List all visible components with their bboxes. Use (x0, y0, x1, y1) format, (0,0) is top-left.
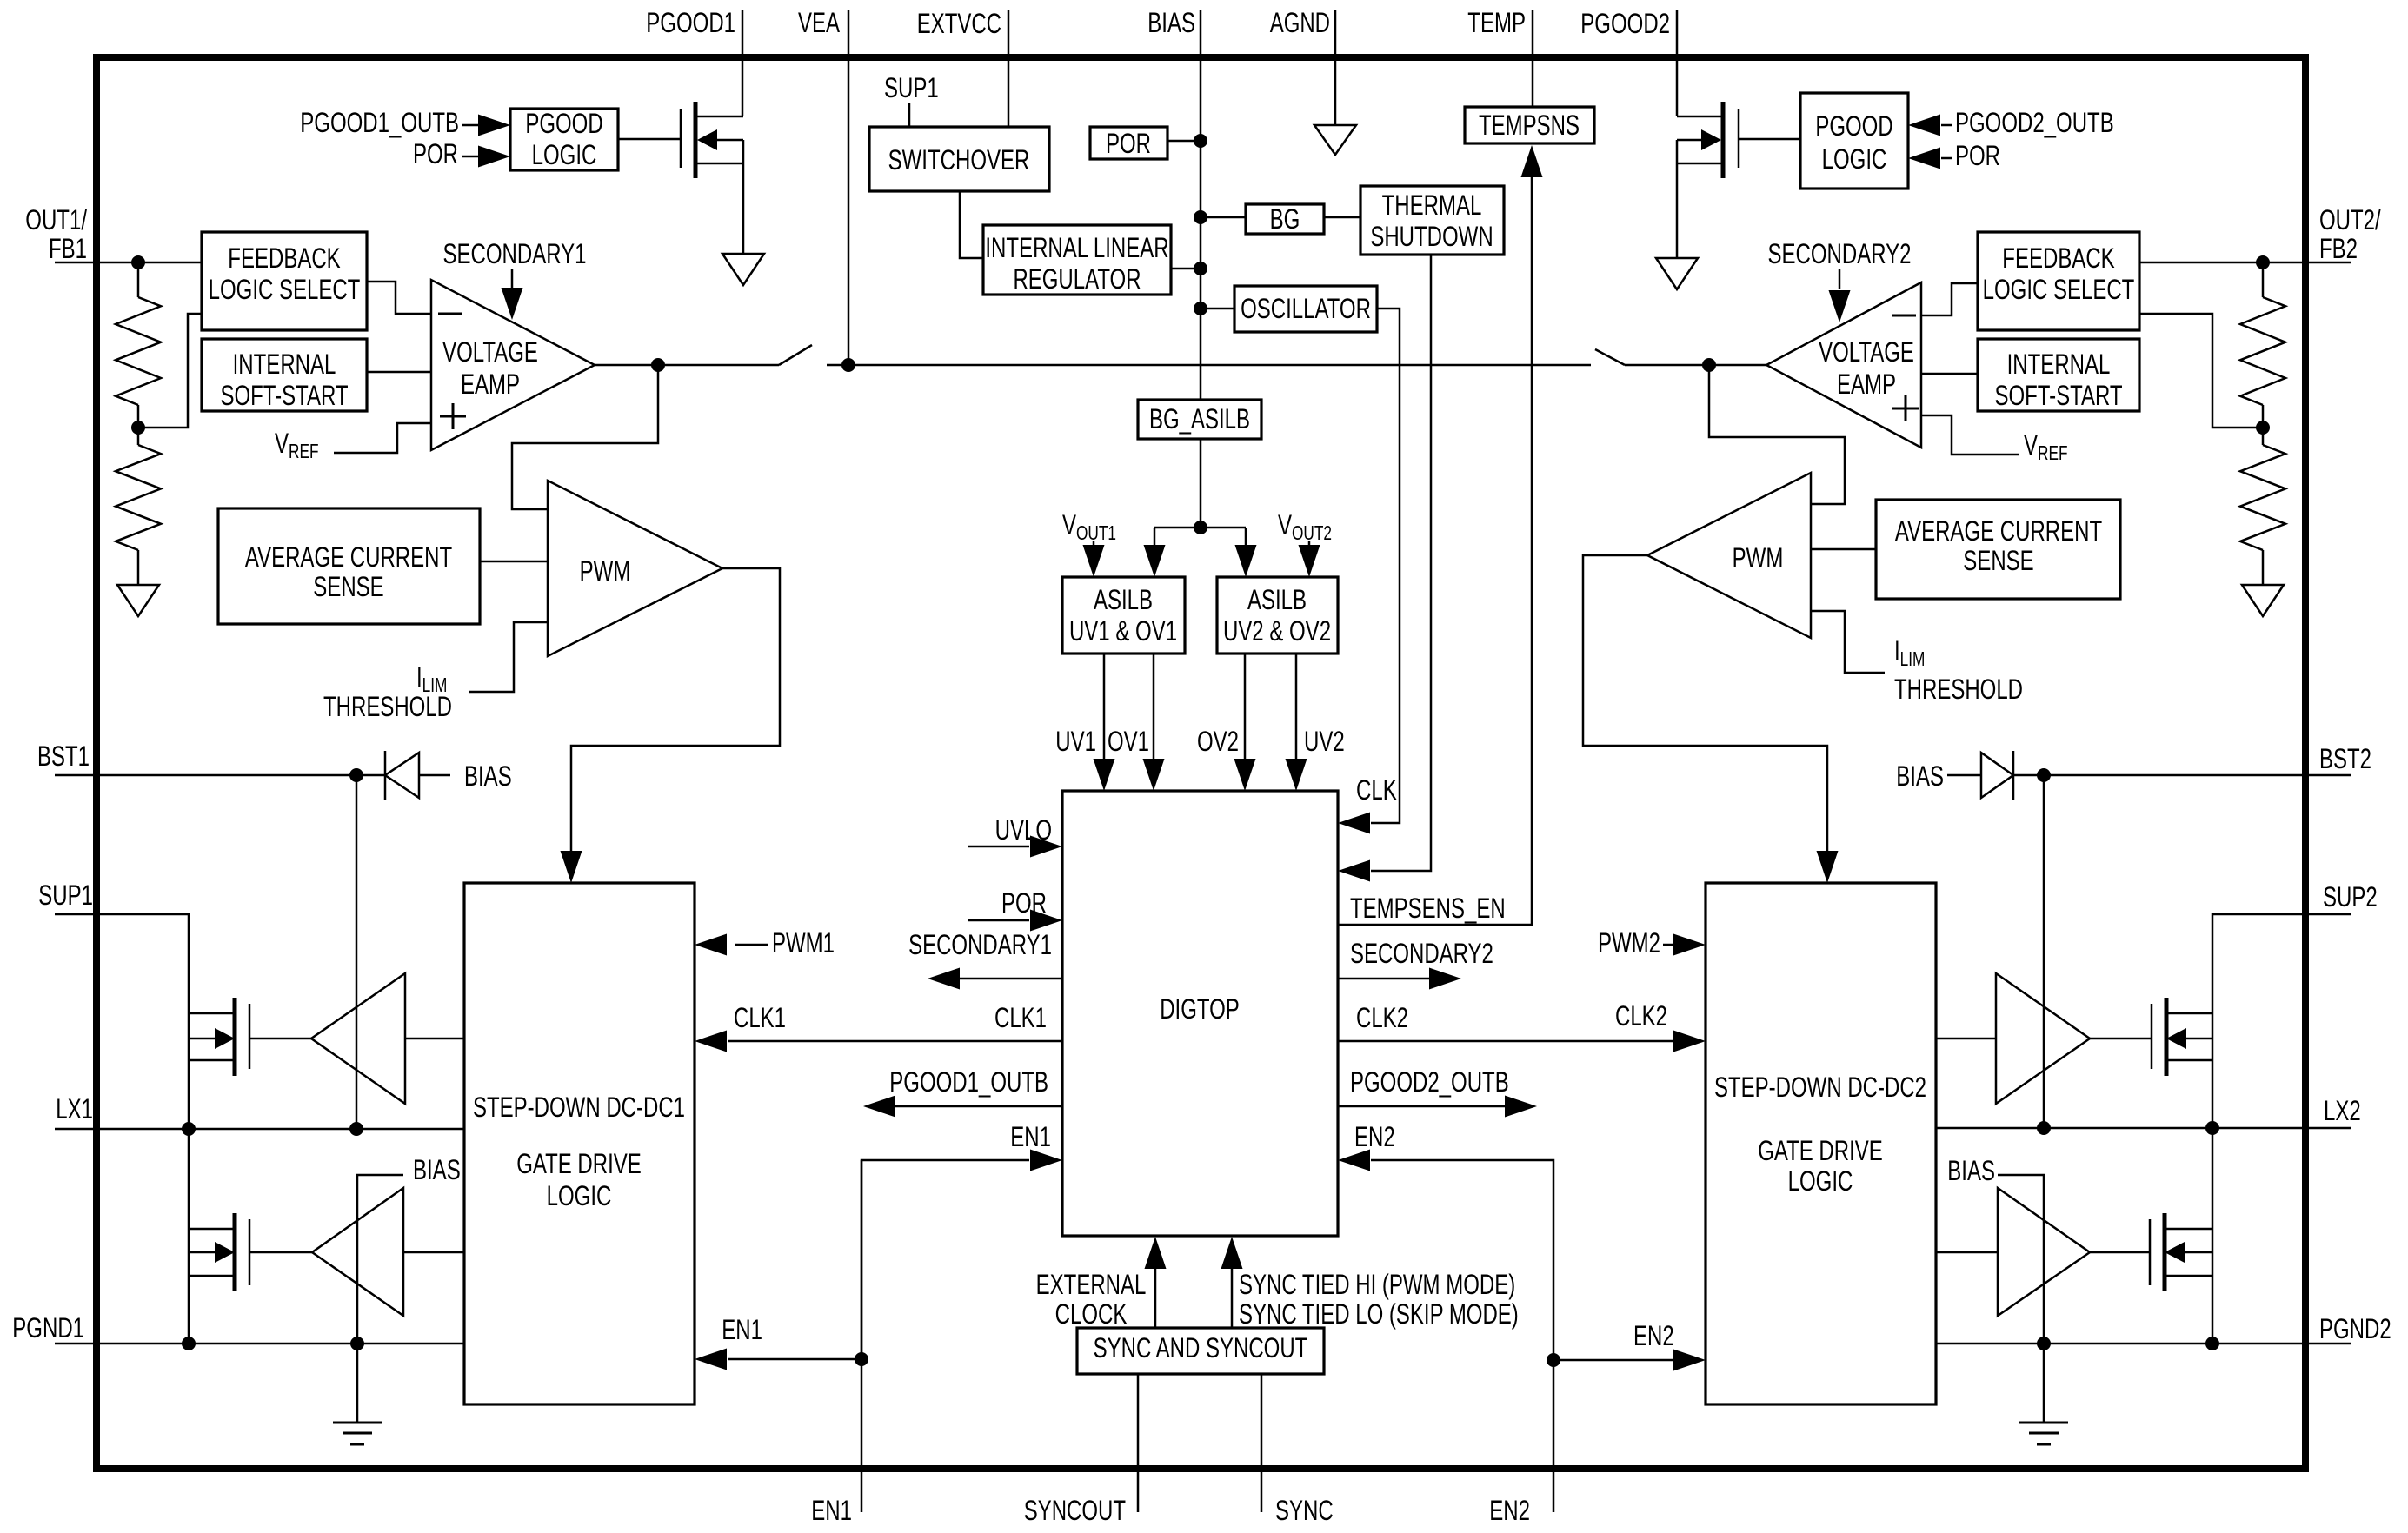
pin SYNC (1261, 1374, 1263, 1512)
wire gate PGOOD LOGIC to Q2 (1739, 138, 1800, 141)
svg-text:UV2: UV2 (1304, 726, 1345, 757)
op-amp EAMP2 VOLTAGE EAMP (1766, 282, 1921, 448)
svg-text:AVERAGE CURRENT: AVERAGE CURRENT (1895, 515, 2102, 547)
node bus right junction (1702, 358, 1716, 372)
svg-text:VREF: VREF (275, 428, 319, 462)
svg-text:THERMAL: THERMAL (1382, 189, 1482, 221)
box OSCILLATOR (1234, 286, 1377, 332)
svg-text:FEEDBACK: FEEDBACK (228, 242, 340, 274)
svg-text:UV2 & OV2: UV2 & OV2 (1223, 615, 1331, 647)
svg-text:VOUT1: VOUT1 (1062, 509, 1116, 544)
svg-text:INTERNAL: INTERNAL (2007, 348, 2111, 380)
box SYNC AND SYNCOUT (1077, 1328, 1324, 1374)
box FEEDBACK LOGIC SELECT (right) (1978, 232, 2139, 330)
box AVERAGE CURRENT SENSE (right) (1876, 500, 2120, 599)
box PGOOD LOGIC (left) (510, 109, 618, 170)
svg-text:STEP-DOWN DC-DC2: STEP-DOWN DC-DC2 (1714, 1072, 1926, 1103)
svg-text:SUP1: SUP1 (38, 879, 93, 911)
wire thermal shutdown to DIGTOP (1371, 255, 1431, 871)
svg-text:SENSE: SENSE (313, 571, 383, 602)
wire bus to PWM1 input (512, 365, 658, 509)
wire POR to BIAS rail (1167, 140, 1201, 143)
wire PWM1 output to gate driver (571, 568, 780, 851)
box PGOOD LOGIC (right) (1800, 93, 1908, 189)
wire ILIM to PWM2 (1811, 611, 1885, 673)
svg-text:INTERNAL LINEAR: INTERNAL LINEAR (985, 232, 1168, 263)
svg-text:EAMP: EAMP (461, 368, 520, 400)
amplifier PWM1 (548, 481, 722, 656)
svg-text:PGOOD2: PGOOD2 (1580, 8, 1670, 39)
svg-text:EXTERNAL: EXTERNAL (1036, 1269, 1147, 1300)
box POR (1090, 127, 1167, 159)
ground below divider (left) (117, 585, 159, 616)
node divider tap (left) (131, 421, 145, 435)
switch on bus (right) (1595, 349, 1625, 365)
node PGND1 junctions (182, 1337, 196, 1350)
wire TEMPSENS_EN from DIGTOP to TEMPSNS (1338, 177, 1532, 925)
pin PGND2 (1936, 1343, 2351, 1345)
pin LX1 (55, 1128, 464, 1131)
svg-text:PWM: PWM (1733, 542, 1784, 574)
transistor Q6 low-side right (2090, 1251, 2150, 1254)
node PGND2 junctions (2037, 1337, 2051, 1350)
box TEMPSNS (1465, 107, 1594, 143)
svg-text:EXTVCC: EXTVCC (917, 8, 1001, 39)
ground below Q1 (722, 254, 764, 285)
svg-text:CLK1: CLK1 (734, 1002, 786, 1033)
box AVERAGE CURRENT SENSE (left) (218, 508, 480, 624)
svg-text:LX2: LX2 (2324, 1095, 2361, 1126)
wire tap to feedback box right (2139, 314, 2263, 428)
svg-text:LX1: LX1 (56, 1093, 93, 1125)
ground chassis right (2019, 1422, 2068, 1424)
svg-text:OV2: OV2 (1197, 726, 1239, 757)
signal UV2 to DIGTOP (1295, 654, 1298, 760)
pin BST1 (55, 774, 356, 777)
svg-text:BIAS: BIAS (1896, 760, 1944, 792)
svg-text:POR: POR (1955, 140, 2000, 171)
wire BIAS to BG (1201, 216, 1246, 219)
svg-text:LOGIC: LOGIC (532, 139, 597, 170)
amplifier PWM2 (1647, 473, 1811, 638)
svg-text:CLOCK: CLOCK (1055, 1298, 1128, 1330)
pin TEMP (1532, 10, 1534, 107)
node BIAS-regulator (1194, 262, 1207, 275)
diode bootstrap D1 (349, 768, 363, 782)
node EN2 junction (1547, 1353, 1560, 1367)
svg-text:EN1: EN1 (722, 1314, 762, 1345)
svg-text:CLK2: CLK2 (1615, 1000, 1667, 1032)
box INTERNAL LINEAR REGULATOR (983, 225, 1171, 295)
box DIGTOP (1062, 791, 1338, 1236)
box INTERNAL SOFT-START (left) (202, 339, 367, 411)
svg-text:EN2: EN2 (1489, 1495, 1530, 1526)
wire BST1 to LX1 (356, 775, 358, 1129)
signal UV1 to DIGTOP (1103, 654, 1106, 760)
pin EN2 (1553, 1360, 1555, 1512)
box BG_ASILB (1138, 400, 1261, 439)
svg-text:POR: POR (1106, 128, 1151, 159)
svg-text:BG_ASILB: BG_ASILB (1149, 403, 1250, 435)
transistor Q1 PGOOD1 open-drain (680, 109, 682, 168)
svg-text:SYNC TIED HI (PWM MODE): SYNC TIED HI (PWM MODE) (1239, 1269, 1515, 1300)
svg-text:VOLTAGE: VOLTAGE (1819, 336, 1914, 368)
svg-text:PWM: PWM (580, 555, 631, 587)
node divider tap (right) (2256, 421, 2270, 435)
svg-text:REGULATOR: REGULATOR (1013, 263, 1141, 295)
svg-text:CLK1: CLK1 (994, 1002, 1047, 1033)
box BG (1246, 204, 1324, 234)
pin EN1 (861, 1160, 863, 1512)
node LX2 junctions (2037, 1121, 2051, 1135)
wire BG to thermal shutdown (1324, 216, 1360, 219)
wire VREF to EAMP2 plus (1921, 415, 2019, 455)
svg-text:GATE DRIVE: GATE DRIVE (1758, 1135, 1883, 1166)
svg-text:SUP1: SUP1 (884, 72, 939, 103)
svg-text:UV1 & OV1: UV1 & OV1 (1069, 615, 1177, 647)
node LX1 junctions (182, 1122, 196, 1136)
pin EXTVCC (1008, 10, 1010, 127)
resistor divider upper (right) (2262, 262, 2265, 297)
svg-text:VEA: VEA (798, 7, 840, 38)
svg-text:OSCILLATOR: OSCILLATOR (1241, 293, 1371, 324)
svg-text:FB1: FB1 (49, 233, 87, 264)
wire BIAS to oscillator (1201, 308, 1234, 310)
svg-text:PGOOD1: PGOOD1 (646, 7, 735, 38)
svg-text:LOGIC: LOGIC (547, 1180, 612, 1211)
svg-text:PGOOD1_OUTB: PGOOD1_OUTB (300, 107, 459, 138)
svg-text:OUT2/: OUT2/ (2319, 204, 2381, 236)
svg-text:ILIM: ILIM (1894, 635, 1925, 670)
node FB1 junction (131, 255, 145, 269)
svg-text:PGND1: PGND1 (12, 1312, 84, 1344)
ground below divider (right) (2242, 585, 2284, 616)
transistor Q3 high-side left (249, 1038, 311, 1040)
wire bus to PWM2 input (1709, 365, 1845, 504)
pin SYNCOUT (1137, 1374, 1140, 1512)
svg-text:ASILB: ASILB (1247, 584, 1307, 615)
pin SUP1 (55, 914, 189, 1344)
wire PWM2 output to gate driver (1583, 555, 1827, 851)
svg-text:OV1: OV1 (1108, 726, 1149, 757)
svg-text:SECONDARY1: SECONDARY1 (908, 929, 1052, 960)
pin LX2 (1936, 1127, 2351, 1130)
svg-text:PGOOD1_OUTB: PGOOD1_OUTB (889, 1066, 1048, 1098)
transistor Q4 low-side left (249, 1251, 312, 1254)
svg-text:PGND2: PGND2 (2319, 1313, 2391, 1344)
pin VEA (848, 10, 850, 365)
box THERMAL SHUTDOWN (1360, 186, 1504, 255)
box INTERNAL SOFT-START (right) (1978, 339, 2139, 411)
transistor Q5 high-side right (2090, 1038, 2152, 1040)
svg-text:TEMPSENS_EN: TEMPSENS_EN (1350, 893, 1506, 924)
svg-text:BIAS: BIAS (1947, 1155, 1995, 1186)
wire oscillator CLK to DIGTOP (1371, 309, 1400, 823)
box STEP-DOWN DC-DC2 GATE DRIVE LOGIC (1706, 883, 1936, 1404)
box SWITCHOVER (869, 127, 1049, 191)
svg-text:CLK2: CLK2 (1356, 1002, 1408, 1033)
svg-text:TEMP: TEMP (1467, 7, 1526, 38)
node BIAS-POR (1194, 134, 1207, 148)
op-amp EAMP1 VOLTAGE EAMP (431, 280, 595, 450)
node VEA junction (841, 358, 855, 372)
pin BIAS (1200, 10, 1202, 400)
svg-text:PGOOD2_OUTB: PGOOD2_OUTB (1955, 107, 2114, 138)
svg-text:CLK: CLK (1356, 774, 1397, 806)
svg-text:FB2: FB2 (2319, 233, 2358, 264)
resistor divider upper (left) (137, 262, 140, 297)
svg-text:SUP2: SUP2 (2323, 881, 2378, 912)
svg-text:EAMP: EAMP (1837, 368, 1896, 400)
wire BG_ASILB to split node (1200, 439, 1202, 528)
svg-text:EN1: EN1 (1010, 1121, 1051, 1152)
svg-text:ASILB: ASILB (1094, 584, 1153, 615)
wire split to ASILB blocks (1154, 527, 1246, 529)
svg-text:SYNC TIED LO (SKIP MODE): SYNC TIED LO (SKIP MODE) (1239, 1298, 1519, 1330)
svg-text:UV1: UV1 (1055, 726, 1096, 757)
svg-text:PWM2: PWM2 (1598, 927, 1660, 959)
pin PGOOD1 (742, 10, 744, 116)
svg-text:BST2: BST2 (2319, 743, 2371, 774)
pin SUP2 (2212, 914, 2351, 1344)
svg-text:VOLTAGE: VOLTAGE (442, 336, 538, 368)
ground below Q2 (1656, 258, 1698, 289)
wire ILIM to PWM1 (469, 622, 548, 692)
pin PGOOD2 (1676, 10, 1679, 116)
svg-text:FEEDBACK: FEEDBACK (2002, 242, 2114, 274)
switch on bus (left) (779, 345, 812, 365)
svg-text:BIAS: BIAS (1147, 7, 1195, 38)
svg-text:VREF: VREF (2024, 429, 2068, 464)
node FB2 junction (2256, 255, 2270, 269)
svg-text:SWITCHOVER: SWITCHOVER (888, 144, 1030, 176)
svg-text:AVERAGE CURRENT: AVERAGE CURRENT (245, 541, 452, 573)
driver buffer high-side (left) (311, 973, 405, 1104)
signal OV2 to DIGTOP (1244, 654, 1247, 760)
svg-text:SHUTDOWN: SHUTDOWN (1370, 221, 1493, 252)
svg-text:EN2: EN2 (1633, 1320, 1674, 1351)
driver buffer low-side (right) (1998, 1188, 2090, 1316)
wire SWITCHOVER to regulator (960, 191, 983, 258)
svg-text:OUT1/: OUT1/ (25, 204, 87, 236)
node BIAS-OSC (1194, 302, 1207, 315)
svg-text:TEMPSNS: TEMPSNS (1479, 109, 1580, 141)
svg-text:BIAS: BIAS (464, 760, 512, 792)
signal OV1 to DIGTOP (1153, 654, 1155, 760)
svg-text:LOGIC SELECT: LOGIC SELECT (1983, 274, 2135, 305)
transistor Q2 PGOOD2 open-drain (1738, 109, 1740, 168)
svg-text:BG: BG (1270, 203, 1300, 235)
svg-text:AGND: AGND (1270, 7, 1330, 38)
svg-text:GATE DRIVE: GATE DRIVE (516, 1148, 642, 1179)
svg-text:EN1: EN1 (811, 1495, 852, 1526)
wire regulator to BIAS rail (1171, 268, 1201, 270)
svg-text:THRESHOLD: THRESHOLD (323, 691, 452, 722)
svg-text:PGOOD2_OUTB: PGOOD2_OUTB (1350, 1066, 1509, 1098)
svg-text:SYNC: SYNC (1275, 1495, 1334, 1526)
ground AGND triangle (1314, 125, 1356, 155)
wire ISS2 to EAMP2 (1921, 373, 1978, 375)
svg-text:SECONDARY2: SECONDARY2 (1768, 238, 1912, 269)
pin OUT1/FB1 (55, 262, 202, 264)
node EAMP1 output (651, 358, 665, 372)
svg-text:EN2: EN2 (1354, 1121, 1395, 1152)
svg-text:SOFT-START: SOFT-START (220, 380, 348, 411)
svg-text:SENSE: SENSE (1963, 545, 2033, 576)
pin OUT2/FB2 (2139, 262, 2351, 264)
wire ISS to EAMP (367, 371, 431, 374)
wire gate PGOOD LOGIC to Q1 (618, 138, 681, 141)
wire VREF to EAMP plus (334, 423, 431, 453)
driver buffer high-side (right) (1996, 973, 2090, 1104)
wire BST2 to LX2 (2043, 775, 2045, 1128)
svg-text:SECONDARY2: SECONDARY2 (1350, 938, 1493, 969)
svg-text:THRESHOLD: THRESHOLD (1894, 674, 2023, 705)
svg-text:SYNCOUT: SYNCOUT (1024, 1495, 1126, 1526)
svg-text:PWM1: PWM1 (772, 927, 835, 959)
wire PGND1 to chassis ground (356, 1344, 359, 1423)
wire ACS1 to PWM1 (480, 561, 548, 563)
wire PGND2 to chassis ground (2043, 1344, 2045, 1423)
svg-text:DIGTOP: DIGTOP (1160, 993, 1240, 1025)
svg-text:PGOOD: PGOOD (525, 108, 602, 139)
wire ACS2 to PWM2 (1811, 548, 1876, 551)
box STEP-DOWN DC-DC1 GATE DRIVE LOGIC (464, 883, 695, 1404)
ground chassis left (333, 1422, 382, 1424)
svg-text:INTERNAL: INTERNAL (233, 348, 336, 380)
pin AGND (1334, 10, 1337, 125)
node BG_ASILB split (1194, 521, 1207, 534)
resistor divider lower (right) (2262, 428, 2265, 445)
box ASILB UV1 & OV1 (1062, 577, 1185, 654)
wire FLS2 to EAMP2 minus (1921, 283, 1978, 315)
svg-text:LOGIC: LOGIC (1822, 143, 1887, 175)
resistor divider lower (left) (137, 428, 140, 445)
node EN1 junction (855, 1352, 868, 1366)
svg-text:SECONDARY1: SECONDARY1 (443, 238, 587, 269)
driver buffer low-side (left) (312, 1188, 403, 1316)
pin BST2 (2044, 774, 2351, 777)
wire EAMP1 output bus (595, 364, 779, 367)
svg-text:VOUT2: VOUT2 (1278, 509, 1332, 544)
box FEEDBACK LOGIC SELECT (left) (202, 232, 367, 330)
pin PGND1 (55, 1343, 464, 1345)
svg-text:BIAS: BIAS (413, 1154, 461, 1185)
svg-text:STEP-DOWN DC-DC1: STEP-DOWN DC-DC1 (473, 1092, 685, 1123)
svg-text:SOFT-START: SOFT-START (1994, 380, 2122, 411)
diode bootstrap D2 (2037, 768, 2051, 782)
svg-text:BST1: BST1 (37, 740, 90, 772)
svg-text:POR: POR (413, 138, 458, 169)
svg-text:LOGIC SELECT: LOGIC SELECT (209, 274, 361, 305)
svg-text:PGOOD: PGOOD (1815, 110, 1892, 142)
wire FLS to EAMP minus (367, 282, 431, 314)
wire tap to feedback box (138, 314, 202, 428)
svg-text:SYNC AND SYNCOUT: SYNC AND SYNCOUT (1094, 1332, 1308, 1364)
node BIAS-BG (1194, 210, 1207, 224)
svg-text:LOGIC: LOGIC (1788, 1165, 1853, 1197)
box ASILB UV2 & OV2 (1217, 577, 1338, 654)
